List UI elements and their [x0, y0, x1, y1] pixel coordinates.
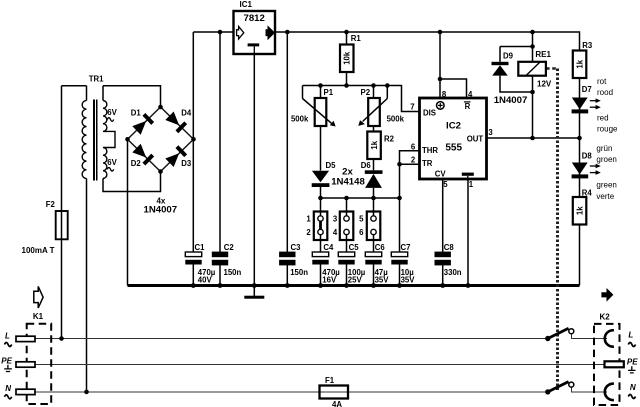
- svg-text:TR1: TR1: [89, 75, 104, 84]
- svg-text:green: green: [596, 181, 616, 190]
- svg-text:L: L: [628, 331, 633, 340]
- svg-text:4: 4: [468, 90, 473, 99]
- svg-text:16V: 16V: [322, 275, 337, 284]
- svg-text:500k: 500k: [291, 114, 309, 123]
- svg-text:N: N: [5, 384, 11, 393]
- svg-text:3: 3: [488, 128, 493, 137]
- svg-text:5: 5: [443, 180, 448, 189]
- svg-text:C4: C4: [323, 243, 334, 252]
- svg-text:8: 8: [442, 90, 447, 99]
- svg-text:DIS: DIS: [423, 109, 436, 118]
- svg-text:K2: K2: [600, 312, 611, 321]
- svg-text:1k: 1k: [370, 140, 379, 149]
- svg-text:35V: 35V: [401, 275, 416, 284]
- svg-text:1N4007: 1N4007: [143, 205, 177, 216]
- svg-text:C3: C3: [291, 243, 302, 252]
- svg-text:1k: 1k: [575, 59, 584, 68]
- svg-text:C6: C6: [375, 243, 386, 252]
- svg-text:C7: C7: [401, 243, 411, 252]
- svg-text:D7: D7: [582, 85, 592, 94]
- svg-text:7: 7: [410, 102, 414, 111]
- svg-text:R2: R2: [384, 135, 395, 144]
- svg-text:C2: C2: [224, 243, 235, 252]
- svg-text:C8: C8: [444, 243, 455, 252]
- svg-text:330n: 330n: [444, 268, 462, 277]
- svg-text:L: L: [5, 332, 10, 341]
- svg-text:25V: 25V: [348, 275, 363, 284]
- svg-text:red: red: [597, 114, 609, 123]
- svg-text:P2: P2: [361, 88, 371, 97]
- svg-text:TR: TR: [422, 159, 433, 168]
- svg-text:5: 5: [359, 214, 364, 223]
- svg-text:2: 2: [411, 155, 416, 164]
- svg-text:D9: D9: [503, 52, 514, 61]
- svg-text:6: 6: [411, 142, 416, 151]
- svg-text:D1: D1: [131, 109, 142, 118]
- svg-text:40V: 40V: [198, 275, 213, 284]
- svg-text:1: 1: [469, 180, 474, 189]
- svg-text:C1: C1: [195, 243, 206, 252]
- svg-text:D4: D4: [181, 109, 192, 118]
- svg-text:CV: CV: [435, 169, 447, 178]
- svg-text:groen: groen: [596, 155, 616, 164]
- svg-text:4A: 4A: [332, 400, 342, 407]
- svg-text:R4: R4: [582, 189, 593, 198]
- svg-text:2: 2: [306, 228, 311, 237]
- svg-text:D5: D5: [326, 161, 337, 170]
- svg-text:K1: K1: [33, 312, 44, 321]
- svg-text:rot: rot: [597, 77, 607, 86]
- svg-text:1N4007: 1N4007: [494, 95, 528, 106]
- svg-text:R3: R3: [582, 41, 593, 50]
- svg-text:12V: 12V: [537, 79, 552, 88]
- svg-text:D3: D3: [181, 159, 192, 168]
- svg-text:7812: 7812: [244, 13, 265, 24]
- svg-text:6V: 6V: [107, 158, 117, 167]
- svg-text:6V: 6V: [107, 108, 117, 117]
- svg-text:1k: 1k: [575, 206, 584, 215]
- svg-text:3: 3: [333, 214, 338, 223]
- svg-text:1N4148: 1N4148: [331, 177, 365, 188]
- svg-text:6: 6: [359, 228, 364, 237]
- svg-text:rood: rood: [597, 88, 613, 97]
- svg-text:555: 555: [445, 143, 462, 154]
- svg-text:OUT: OUT: [467, 134, 484, 143]
- svg-text:P1: P1: [324, 88, 334, 97]
- svg-text:4: 4: [333, 228, 338, 237]
- svg-text:1: 1: [306, 214, 311, 223]
- svg-text:150n: 150n: [224, 268, 242, 277]
- svg-text:F1: F1: [325, 376, 335, 385]
- svg-text:500k: 500k: [387, 114, 405, 123]
- svg-text:D2: D2: [131, 159, 142, 168]
- svg-text:D8: D8: [582, 152, 593, 161]
- svg-text:150n: 150n: [290, 268, 308, 277]
- svg-text:10k: 10k: [343, 51, 352, 65]
- svg-text:IC2: IC2: [446, 121, 461, 132]
- svg-text:C5: C5: [349, 243, 360, 252]
- svg-text:R: R: [465, 102, 471, 111]
- svg-text:35V: 35V: [375, 275, 390, 284]
- svg-text:PE: PE: [1, 357, 12, 366]
- svg-text:THR: THR: [422, 146, 438, 155]
- svg-text:D6: D6: [361, 161, 372, 170]
- svg-text:rouge: rouge: [597, 125, 618, 134]
- svg-text:IC1: IC1: [240, 0, 253, 9]
- svg-text:F2: F2: [46, 200, 56, 209]
- svg-text:100mA T: 100mA T: [22, 246, 55, 255]
- svg-text:R1: R1: [351, 34, 362, 43]
- svg-text:PE: PE: [627, 357, 638, 366]
- svg-text:verte: verte: [596, 192, 614, 201]
- svg-text:grün: grün: [596, 144, 612, 153]
- svg-text:RE1: RE1: [535, 50, 551, 59]
- svg-text:N: N: [630, 383, 636, 392]
